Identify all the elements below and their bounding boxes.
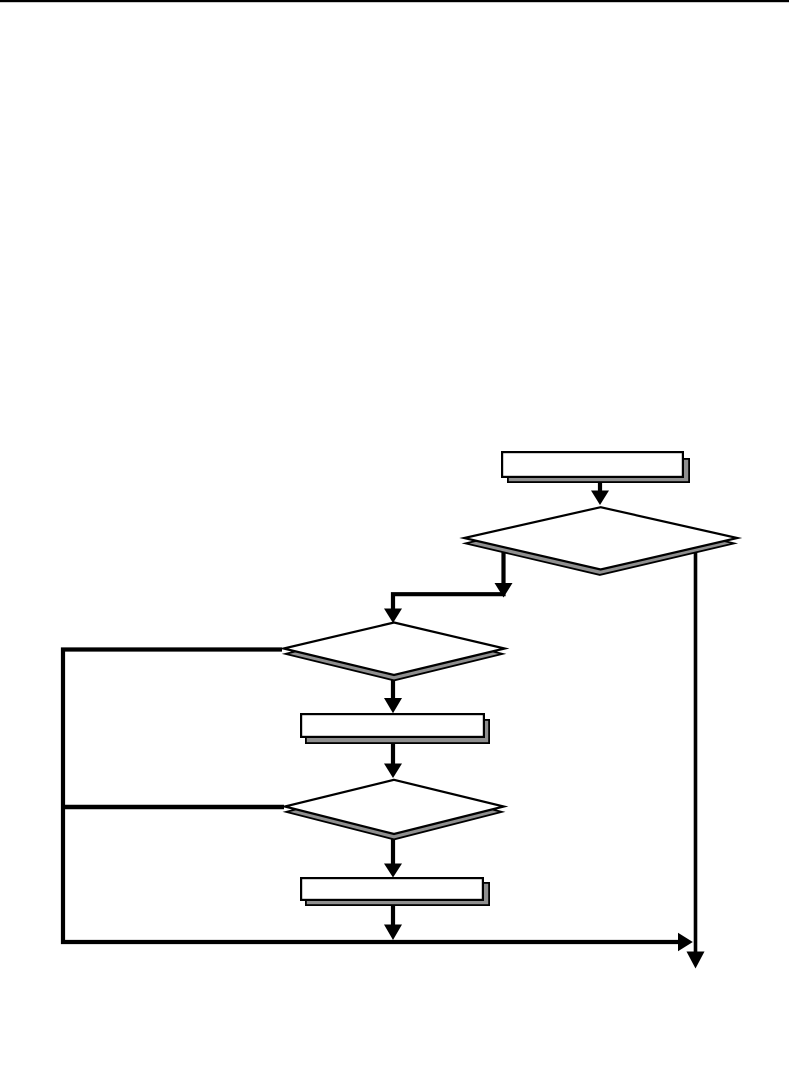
decision diamond D2 shadow	[286, 627, 503, 680]
wire C2: elbow left then down into diamond D2	[384, 594, 506, 623]
wire C7: long left return elbow with bottom arrow	[63, 650, 693, 952]
process box P1 shadow	[508, 459, 689, 482]
decision diamond D1 shadow	[466, 512, 735, 575]
wire C1: diamond D1 bottom-left edge down to junction	[495, 546, 513, 598]
wire C5: diamond D3 bottom to box P3	[384, 830, 402, 878]
decision diamond D3	[285, 780, 504, 834]
wire C6: box P3 bottom to bottom line	[384, 900, 402, 940]
process box P1	[502, 452, 683, 477]
decision diamond D2	[284, 623, 505, 676]
wire C4: box P2 bottom to diamond D3	[384, 736, 402, 778]
wire C3: diamond D2 bottom to box P2	[384, 670, 402, 713]
wire C8: diamond D3 left vertex to left line	[61, 805, 284, 809]
wire C9: long right line from diamond D1 down with arrow	[687, 548, 705, 969]
decision diamond D1	[464, 507, 737, 569]
process box P2	[301, 714, 484, 737]
process box P3	[301, 878, 483, 900]
process box P2 shadow	[306, 720, 489, 743]
wire arrow A1: box P1 to diamond D1	[591, 479, 609, 505]
process box P3 shadow	[306, 883, 489, 905]
decision diamond D3 shadow	[286, 784, 502, 839]
top rule	[0, 0, 789, 2]
